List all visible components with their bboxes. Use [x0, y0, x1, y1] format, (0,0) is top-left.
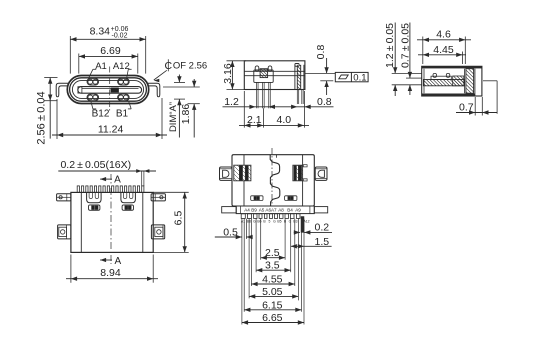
svg-text:4.55: 4.55 — [262, 273, 283, 285]
svg-text:B9: B9 — [251, 208, 257, 213]
svg-text:2.1: 2.1 — [247, 114, 262, 126]
svg-text:0.1: 0.1 — [353, 72, 366, 83]
svg-text:A: A — [114, 256, 121, 267]
svg-text:1.2: 1.2 — [224, 96, 239, 108]
svg-text:A4: A4 — [244, 208, 250, 213]
svg-text:6.65: 6.65 — [262, 312, 283, 324]
svg-text:0.5: 0.5 — [223, 226, 238, 238]
svg-text:0.8: 0.8 — [317, 96, 332, 108]
svg-text:A12: A12 — [303, 219, 309, 223]
svg-text:0.8: 0.8 — [315, 45, 327, 60]
svg-text:2.5: 2.5 — [265, 247, 280, 259]
svg-text:-0.02: -0.02 — [112, 33, 128, 40]
svg-text:4.45: 4.45 — [433, 44, 454, 56]
svg-text:8.94: 8.94 — [100, 267, 121, 279]
svg-text:2.56 ± 0.04: 2.56 ± 0.04 — [36, 91, 48, 144]
svg-text:8.34: 8.34 — [90, 25, 111, 37]
svg-text:G: G — [253, 219, 256, 223]
svg-text:0.2: 0.2 — [314, 221, 329, 233]
svg-text:G: G — [289, 219, 292, 223]
svg-text:5: 5 — [269, 219, 271, 223]
svg-text:A12: A12 — [113, 61, 130, 72]
svg-text:0.7: 0.7 — [459, 102, 474, 114]
svg-text:3.16: 3.16 — [222, 63, 234, 84]
svg-text:4.6: 4.6 — [436, 29, 451, 41]
svg-text:1.86: 1.86 — [180, 104, 192, 125]
svg-text:6.5: 6.5 — [172, 211, 184, 226]
svg-text:B3: B3 — [293, 219, 297, 223]
svg-text:A9: A9 — [295, 208, 301, 213]
svg-text:A8: A8 — [278, 208, 284, 213]
svg-text:6.69: 6.69 — [100, 45, 121, 57]
svg-text:B4: B4 — [287, 208, 293, 213]
svg-text:A1: A1 — [95, 61, 107, 72]
svg-text:DIM“A”: DIM“A” — [168, 102, 179, 132]
svg-text:B12: B12 — [92, 108, 110, 119]
svg-text:B1: B1 — [116, 108, 129, 119]
svg-text:5.05: 5.05 — [262, 286, 283, 298]
svg-text:1.2 ± 0.05: 1.2 ± 0.05 — [384, 23, 396, 68]
svg-text:B5: B5 — [277, 219, 281, 223]
svg-text:A6A7: A6A7 — [265, 208, 277, 213]
svg-text:A: A — [114, 175, 121, 186]
svg-text:A5: A5 — [259, 208, 265, 213]
svg-text:3.5: 3.5 — [265, 260, 280, 272]
svg-text:6.15: 6.15 — [262, 299, 283, 311]
svg-text:1.5: 1.5 — [314, 236, 329, 248]
svg-text:OF 2.56: OF 2.56 — [173, 61, 207, 72]
svg-text:G: G — [273, 219, 276, 223]
svg-text:4.0: 4.0 — [276, 114, 291, 126]
svg-text:11.24: 11.24 — [98, 124, 124, 136]
svg-text:0.2 ± 0.05(16X): 0.2 ± 0.05(16X) — [60, 159, 131, 171]
